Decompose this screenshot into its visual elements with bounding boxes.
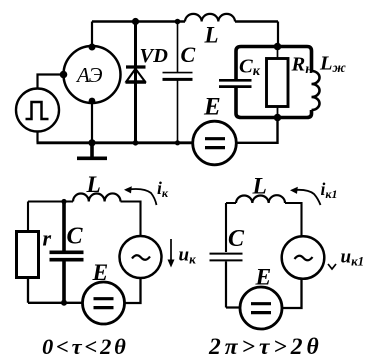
node capacitor C bottom (bottom-left): [61, 300, 67, 306]
capacitor C bottom wire: [177, 81, 179, 143]
resistor r: [17, 232, 39, 278]
node contour bottom: [274, 114, 282, 122]
op-amp U1: active element AE circle: [64, 46, 121, 103]
wire left vertical: [27, 202, 29, 232]
resistor Rn stub bottom: [277, 107, 279, 118]
svg-text:uк: uк: [179, 245, 197, 267]
battery E bars: [94, 299, 114, 308]
tilde: [295, 256, 313, 261]
resistor Rn: [267, 59, 289, 107]
AC source (bottom-left): [120, 236, 162, 278]
battery E bars: [205, 139, 225, 148]
node AE bottom: [89, 98, 96, 105]
svg-text:Lж: Lж: [319, 53, 347, 77]
wire AE bottom stem: [91, 101, 93, 143]
capacitor C plates (bottom-right): [210, 253, 243, 255]
wire left vertical (bottom-right): [225, 203, 227, 252]
svg-text:L: L: [252, 174, 267, 200]
current arrow ik1: [295, 190, 321, 205]
wire pulse bottom stem: [36, 132, 38, 143]
diode VD triangle: [127, 69, 145, 82]
battery E bars: [251, 304, 271, 313]
capacitor C plates: [163, 72, 193, 74]
voltage arrow uk: [170, 239, 172, 263]
node capacitor C bottom: [175, 140, 180, 145]
svg-text:VD: VD: [140, 45, 169, 67]
node diode bottom: [133, 140, 139, 146]
diode VD branch wire: [134, 22, 137, 143]
diode VD cathode bar: [126, 65, 146, 68]
contour box (thick loop): [236, 47, 312, 118]
node capacitor C top: [175, 19, 181, 25]
svg-text:C: C: [228, 226, 245, 252]
wire pulse link: [38, 75, 64, 89]
wire top right circuit: [226, 203, 302, 236]
wire E to contour: [237, 118, 278, 143]
tilde: [132, 255, 150, 260]
wire cap to bottom: [226, 262, 240, 308]
svg-text:uк1: uк1: [341, 247, 365, 269]
node ground junction: [88, 139, 95, 146]
wire AE top stem: [91, 22, 93, 48]
wire E right / sine stem (bottom-right): [282, 279, 302, 309]
svg-text:E: E: [203, 94, 221, 121]
battery E (bottom-right): [240, 287, 282, 329]
svg-text:r: r: [43, 226, 52, 251]
svg-text:АЭ: АЭ: [75, 63, 103, 87]
ground: [77, 143, 107, 158]
inductor Lzh (right edge coil): [312, 71, 320, 110]
capacitor C branch (bottom-left): [62, 202, 66, 251]
AC source (bottom-right): [282, 236, 325, 279]
svg-text:iк1: iк1: [321, 179, 338, 201]
wire top left: [28, 202, 141, 237]
svg-text:L: L: [86, 172, 101, 198]
battery E (top circuit): [193, 121, 237, 165]
svg-text:2π>τ>2θ: 2π>τ>2θ: [208, 334, 323, 360]
svg-text:C: C: [181, 42, 196, 67]
node contour top: [274, 43, 282, 51]
pulse symbol: [26, 102, 49, 119]
resistor Rn stub top: [277, 47, 279, 59]
node diode top: [132, 18, 139, 25]
pulse generator G1: [16, 89, 59, 132]
current arrow ik: [128, 189, 157, 205]
capacitor C branch top wire: [177, 22, 179, 73]
svg-text:iк: iк: [157, 178, 169, 200]
node AE left: [60, 71, 68, 79]
voltage mark uk1: [328, 264, 336, 269]
wire E right / sine stem: [125, 278, 141, 303]
svg-text:L: L: [204, 23, 219, 48]
inductor L (bottom-right): [236, 195, 285, 203]
svg-text:E: E: [255, 265, 272, 291]
wire top rail: [92, 20, 278, 22]
svg-text:C: C: [67, 224, 84, 250]
inductor L (bottom-left): [73, 193, 121, 201]
wire left lower: [28, 278, 83, 303]
wire bottom rail: [37, 141, 193, 144]
battery E (bottom-left): [83, 282, 125, 324]
svg-text:E: E: [92, 260, 109, 286]
wire right drop to contour box: [277, 22, 279, 46]
capacitor Ck plates: [219, 79, 252, 82]
diode VD anode base: [126, 81, 147, 84]
inductor L (top circuit): [185, 14, 235, 22]
svg-text:0<τ<2θ: 0<τ<2θ: [42, 334, 129, 359]
node AE top: [89, 44, 96, 51]
svg-text:Cк: Cк: [239, 56, 261, 80]
node capacitor C top (bottom-left): [61, 199, 66, 204]
